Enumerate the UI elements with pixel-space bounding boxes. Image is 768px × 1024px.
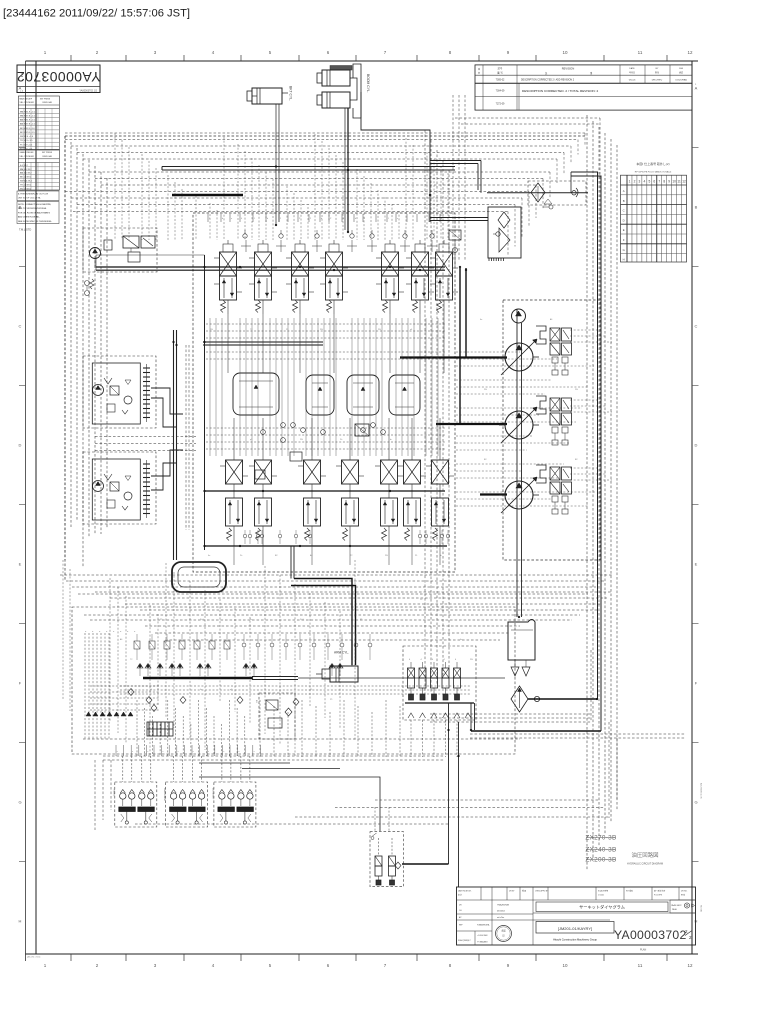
svg-text:FOR OIL FLOW OF EACH PARTS: FOR OIL FLOW OF EACH PARTS bbox=[18, 211, 51, 214]
pump line 2 bbox=[436, 423, 507, 425]
svg-text:7: 7 bbox=[384, 963, 387, 968]
svg-text:YA00003702: YA00003702 bbox=[614, 928, 687, 942]
svg-text:AND LINES IN DETAIL,: AND LINES IN DETAIL, bbox=[18, 216, 40, 219]
main bus pair bbox=[96, 266, 445, 268]
svg-text:MAIN RELIEF: MAIN RELIEF bbox=[20, 98, 33, 101]
svg-text:T2: T2 bbox=[350, 555, 353, 557]
svg-text:d: d bbox=[98, 631, 100, 632]
spool valve V13 bbox=[398, 444, 426, 546]
svg-text:承認: 承認 bbox=[679, 71, 683, 75]
svg-text:BM H 31.9 +1.0: BM H 31.9 +1.0 bbox=[20, 111, 36, 113]
svg-text:D: D bbox=[19, 443, 22, 448]
pilot valve (right) bbox=[211, 756, 256, 827]
lower dashed bundle A bbox=[95, 592, 612, 610]
comb feeders to pilot clusters bbox=[137, 700, 245, 756]
spool valve V11 bbox=[336, 444, 364, 546]
svg-text:F: F bbox=[695, 681, 698, 686]
solenoid valve SV5 bbox=[454, 659, 461, 700]
svg-text:SET PRESS: SET PRESS bbox=[42, 152, 53, 154]
svg-text:PL: PL bbox=[286, 329, 289, 331]
svg-text:1: 1 bbox=[656, 209, 658, 213]
pilot filter cluster bbox=[83, 228, 157, 272]
drain drop lines bbox=[448, 703, 450, 864]
svg-text:印: 印 bbox=[502, 934, 504, 938]
svg-text:E: E bbox=[19, 562, 22, 567]
tank inner bbox=[511, 629, 533, 631]
svg-text:番 号: 番 号 bbox=[497, 71, 503, 75]
svg-text:11: 11 bbox=[638, 50, 643, 55]
travel device L bbox=[83, 356, 156, 428]
mid dashed verticals bbox=[425, 95, 465, 700]
svg-text:F: F bbox=[19, 681, 22, 686]
svg-text:本図I 仕上番号 取外し(2): 本図I 仕上番号 取外し(2) bbox=[636, 161, 669, 166]
suction strainers bbox=[511, 660, 530, 676]
svg-text:PLAN: PLAN bbox=[640, 949, 647, 952]
svg-text:G: G bbox=[18, 800, 21, 805]
svg-text:3: 3 bbox=[154, 50, 157, 55]
spool valve V12 bbox=[375, 444, 403, 546]
svg-text:PH: PH bbox=[300, 439, 303, 441]
svg-text:B2: B2 bbox=[484, 459, 487, 461]
valve block left boundary bbox=[204, 255, 206, 550]
svg-text:CH: CH bbox=[459, 910, 462, 912]
relief cluster right of block bbox=[449, 230, 461, 266]
svg-text:12: 12 bbox=[687, 50, 693, 55]
svg-text:9: 9 bbox=[507, 963, 510, 968]
shuttle row bbox=[137, 664, 343, 677]
svg-text:EG: EG bbox=[255, 700, 257, 703]
pump drive shaft bbox=[516, 309, 518, 617]
spool valve V6 bbox=[406, 240, 434, 314]
svg-text:記: 記 bbox=[545, 71, 548, 75]
svg-text:SWING/ARM: SWING/ARM bbox=[163, 788, 166, 801]
svg-text:A: A bbox=[695, 86, 698, 91]
check valves row bbox=[243, 230, 434, 238]
travel feed verticals bbox=[173, 330, 175, 560]
svg-text:G: G bbox=[623, 248, 625, 252]
svg-text:SW 32.4 +1.0: SW 32.4 +1.0 bbox=[20, 136, 34, 138]
pilot bundle left verticals bbox=[65, 136, 107, 567]
pilot collector thick line bbox=[143, 677, 252, 679]
return line bbox=[528, 698, 598, 700]
drawing frame bbox=[36, 61, 692, 954]
svg-text:PL: PL bbox=[430, 439, 433, 441]
pump line 1 bbox=[400, 356, 507, 358]
svg-text:a4: a4 bbox=[150, 689, 153, 691]
svg-text:d: d bbox=[84, 631, 86, 632]
svg-text:Pz: Pz bbox=[420, 599, 422, 601]
svg-text:1: 1 bbox=[44, 963, 47, 968]
svg-text:4: 4 bbox=[444, 659, 446, 661]
svg-text:4a: 4a bbox=[480, 319, 483, 321]
lower dashed bundle B bbox=[145, 626, 520, 640]
bus line low bbox=[205, 545, 447, 547]
svg-text:[23444162 2011/09/22/ 15:57:06: [23444162 2011/09/22/ 15:57:06 JST] bbox=[3, 8, 190, 20]
svg-text:RPI DP/DPB PLUG TABLE (TOTAL2): RPI DP/DPB PLUG TABLE (TOTAL2) bbox=[635, 171, 672, 174]
bottom ruler bbox=[26, 954, 699, 968]
solenoid block (attachment) bbox=[370, 832, 404, 887]
pump line 3 bbox=[480, 493, 507, 495]
svg-text:a4: a4 bbox=[410, 329, 413, 331]
svg-text:7: 7 bbox=[384, 50, 387, 55]
svg-text:4: 4 bbox=[455, 659, 457, 661]
regulator pilot dashes bbox=[570, 330, 612, 480]
svg-text:SW 4.0 29.4: SW 4.0 29.4 bbox=[20, 181, 33, 183]
svg-text:AM H 31.9 +1.0: AM H 31.9 +1.0 bbox=[20, 119, 36, 122]
svg-text:P: P bbox=[330, 218, 332, 220]
svg-text:a: a bbox=[162, 751, 163, 753]
riser pair bbox=[459, 268, 461, 424]
svg-text:4: 4 bbox=[212, 50, 215, 55]
svg-text:BKT CYL.: BKT CYL. bbox=[289, 86, 293, 101]
svg-text:F: F bbox=[623, 238, 625, 242]
svg-text:5: 5 bbox=[648, 180, 650, 184]
svg-text:T.M.L.STD: T.M.L.STD bbox=[19, 228, 31, 232]
svg-text:4: 4 bbox=[409, 659, 411, 661]
svg-text:[JM201-01/KAYRY]: [JM201-01/KAYRY] bbox=[558, 926, 592, 931]
svg-text:PH: PH bbox=[470, 659, 473, 661]
svg-text:8: 8 bbox=[663, 180, 665, 184]
bus line mid bbox=[205, 490, 445, 492]
notes block 2 bbox=[17, 202, 59, 224]
svg-text:UNIT X10 OF L/min AT EA: UNIT X10 OF L/min AT EA bbox=[18, 197, 41, 200]
valve block dashed box bbox=[193, 213, 455, 572]
filter dashed lines bbox=[430, 650, 591, 722]
accumulator block bbox=[172, 562, 226, 592]
main passage block B2 bbox=[306, 375, 334, 415]
spool valve V7 bbox=[430, 240, 458, 314]
spool valve V5 bbox=[376, 240, 404, 314]
svg-text:HYDRAULIC CIRCUIT DIAGRAM: HYDRAULIC CIRCUIT DIAGRAM bbox=[627, 863, 663, 866]
svg-text:B: B bbox=[623, 199, 625, 203]
ride control dashed box bbox=[255, 693, 295, 739]
svg-text:1: 1 bbox=[44, 50, 47, 55]
svg-text:A1: A1 bbox=[550, 318, 553, 321]
svg-text:事: 事 bbox=[590, 71, 593, 75]
svg-text:サーキットダイヤグラム: サーキットダイヤグラム bbox=[579, 904, 625, 911]
svg-text:BY: BY bbox=[656, 68, 659, 70]
svg-text:SMALL RELIEF: SMALL RELIEF bbox=[20, 151, 35, 154]
svg-text:ZX240-3B: ZX240-3B bbox=[585, 847, 616, 854]
svg-text:a: a bbox=[254, 751, 255, 753]
main passage block B4 bbox=[389, 375, 420, 415]
svg-text:NOTE: CONNECTING HOSE/PIPE,: NOTE: CONNECTING HOSE/PIPE, bbox=[18, 204, 52, 206]
parts table 1 bbox=[18, 96, 59, 150]
svg-text:9: 9 bbox=[668, 180, 670, 184]
svg-text:VBL CYLINDER: VBL CYLINDER bbox=[20, 156, 35, 158]
svg-text:C: C bbox=[695, 324, 698, 329]
svg-text:C: C bbox=[19, 324, 22, 329]
svg-text:Hitachi Construction Machinery: Hitachi Construction Machinery Group bbox=[553, 938, 597, 942]
svg-text:PH: PH bbox=[385, 555, 388, 557]
svg-text:PH: PH bbox=[575, 389, 578, 391]
svg-text:REF: REF bbox=[459, 925, 463, 927]
svg-text:TR 4.0 39.2: TR 4.0 39.2 bbox=[20, 185, 32, 187]
solenoid valve SV1 bbox=[408, 659, 415, 700]
svg-text:3: 3 bbox=[154, 963, 157, 968]
top bundle drop verticals bbox=[115, 133, 448, 240]
travel feed jogs bbox=[151, 388, 183, 414]
valve block inner verticals bbox=[210, 318, 438, 456]
svg-text:A: PRESSURE(MPa) AT OIL FLOW: A: PRESSURE(MPa) AT OIL FLOW bbox=[18, 192, 48, 195]
pilot gear pump bbox=[512, 309, 526, 323]
svg-text:P1: P1 bbox=[360, 619, 363, 621]
svg-text:D: D bbox=[623, 218, 625, 222]
svg-text:P1: P1 bbox=[330, 699, 333, 701]
svg-text:4: 4 bbox=[421, 659, 423, 661]
svg-text:T?.NAKANO: T?.NAKANO bbox=[477, 941, 488, 944]
svg-text:担当: 担当 bbox=[655, 71, 659, 75]
svg-text:VBL CYLINDER: VBL CYLINDER bbox=[20, 102, 35, 104]
svg-text:H.KANEKURA: H.KANEKURA bbox=[477, 924, 490, 927]
spool valve V14 bbox=[426, 444, 454, 546]
pilot line bundle top bbox=[65, 133, 585, 257]
svg-text:SEE FLOW SPEC OF THIS MODEL.: SEE FLOW SPEC OF THIS MODEL. bbox=[18, 221, 53, 223]
svg-text:a: a bbox=[178, 751, 179, 753]
mid small symbols bbox=[255, 423, 385, 479]
svg-text:YA00003702: YA00003702 bbox=[17, 69, 101, 85]
svg-text:BK R 37.8 +1.5: BK R 37.8 +1.5 bbox=[20, 132, 35, 134]
svg-text:PH: PH bbox=[378, 329, 381, 331]
svg-text:BK 4.0 39.2: BK 4.0 39.2 bbox=[20, 177, 32, 179]
svg-text:1: 1 bbox=[656, 219, 658, 223]
svg-text:4.0 39.2: 4.0 39.2 bbox=[20, 165, 29, 167]
svg-text:2: 2 bbox=[96, 50, 99, 55]
svg-text:a: a bbox=[231, 218, 233, 220]
svg-text:G: G bbox=[694, 800, 697, 805]
sheet left edge bbox=[25, 61, 27, 961]
boom cyl pipes bbox=[350, 78, 357, 100]
svg-text:2: 2 bbox=[364, 218, 366, 220]
bottom cluster labels comb bbox=[116, 745, 260, 756]
svg-text:ed n/5m: ed n/5m bbox=[497, 917, 505, 919]
svg-text:用 紙: 用 紙 bbox=[681, 893, 685, 897]
top ruler bbox=[26, 50, 699, 61]
long dashed returns bbox=[470, 722, 686, 818]
drains to bus bbox=[234, 546, 440, 565]
svg-text:PS 3.9 39.2: PS 3.9 39.2 bbox=[20, 189, 32, 191]
svg-text:d: d bbox=[91, 631, 93, 632]
svg-text:YA00003702 1/2: YA00003702 1/2 bbox=[79, 90, 97, 93]
title block bbox=[457, 887, 696, 952]
svg-text:9: 9 bbox=[507, 50, 510, 55]
pilot manifold region small valves bbox=[134, 634, 372, 660]
solenoid valve SV4 bbox=[442, 659, 449, 700]
regulator R3 bbox=[536, 465, 572, 514]
svg-text:OVERLOAD: OVERLOAD bbox=[42, 101, 53, 104]
svg-text:PH: PH bbox=[484, 389, 487, 391]
pilot valve (left) bbox=[163, 756, 208, 827]
svg-text:a: a bbox=[117, 751, 118, 753]
svg-text:2: 2 bbox=[96, 963, 99, 968]
svg-text:10: 10 bbox=[562, 50, 568, 55]
svg-text:H: H bbox=[623, 258, 625, 262]
svg-text:2: 2 bbox=[20, 71, 23, 77]
svg-text:d: d bbox=[126, 631, 128, 632]
svg-text:PH: PH bbox=[210, 329, 213, 331]
svg-text:2: 2 bbox=[280, 218, 282, 220]
solenoid bank block bbox=[147, 722, 173, 736]
svg-text:Pz: Pz bbox=[340, 439, 342, 441]
svg-text:WT 規格: WT 規格 bbox=[626, 889, 633, 893]
svg-text:5: 5 bbox=[269, 50, 272, 55]
svg-text:a: a bbox=[397, 218, 399, 220]
svg-text:BM R 37.8 +1.5: BM R 37.8 +1.5 bbox=[20, 115, 36, 117]
svg-text:DATE: DATE bbox=[629, 67, 635, 70]
boom cylinder 2 bbox=[317, 74, 370, 108]
manifold drain sawtooth bbox=[408, 713, 471, 718]
svg-text:7N/A2N2N3N: 7N/A2N2N3N bbox=[497, 904, 510, 907]
pump unit dashed box bbox=[503, 300, 600, 560]
spool valve V9 bbox=[249, 444, 277, 546]
svg-text:p2: p2 bbox=[250, 439, 253, 441]
bottom-left vert dashes bbox=[95, 760, 111, 830]
svg-text:dr: dr bbox=[390, 439, 392, 441]
svg-text:1: 1 bbox=[629, 180, 631, 184]
svg-text:10: 10 bbox=[562, 963, 568, 968]
manifold bus bbox=[405, 702, 474, 704]
regulator R1 bbox=[536, 326, 572, 375]
small relief pair below bbox=[85, 279, 95, 296]
small diamonds bbox=[128, 689, 299, 712]
parts table 2 bbox=[18, 150, 59, 191]
svg-text:T2: T2 bbox=[250, 329, 253, 331]
pilot filter group (upper right) bbox=[487, 181, 588, 209]
svg-text:4: 4 bbox=[643, 180, 645, 184]
svg-text:A1: A1 bbox=[120, 638, 123, 641]
svg-text:7004-09: 7004-09 bbox=[496, 90, 505, 93]
notes block 1 bbox=[17, 191, 59, 201]
svg-text:AM R 37.8 +1.5: AM R 37.8 +1.5 bbox=[20, 123, 36, 126]
svg-text:7005-02: 7005-02 bbox=[496, 79, 505, 82]
arm feed double elbow bbox=[294, 579, 352, 666]
right zone letters bbox=[692, 86, 699, 924]
regulator R2 bbox=[536, 396, 572, 445]
svg-text:D: D bbox=[695, 443, 698, 448]
right-mid dashed horizontals bbox=[456, 352, 595, 506]
svg-text:A: A bbox=[623, 189, 625, 193]
spool valve V3 bbox=[286, 240, 314, 314]
svg-text:ZX270-3B: ZX270-3B bbox=[585, 835, 616, 842]
svg-text:改: 改 bbox=[478, 67, 480, 71]
svg-text:SET PRESS: SET PRESS bbox=[40, 99, 51, 101]
left pilot comb bbox=[83, 631, 520, 739]
svg-text:E: E bbox=[695, 562, 698, 567]
thick bar bbox=[172, 194, 243, 196]
valve block ports bbox=[208, 214, 443, 222]
svg-text:+1.69/0.5MN: +1.69/0.5MN bbox=[477, 935, 488, 937]
svg-text:5: 5 bbox=[269, 963, 272, 968]
svg-text:b: b bbox=[355, 218, 357, 220]
bottom feed line bbox=[402, 863, 449, 865]
svg-text:11: 11 bbox=[677, 180, 681, 184]
main pump P1 bbox=[499, 339, 539, 375]
solenoid valve SV2 bbox=[419, 659, 426, 700]
svg-text:符: 符 bbox=[478, 71, 480, 75]
svg-text:A9-2922B 11.05: A9-2922B 11.05 bbox=[700, 783, 703, 799]
svg-text:PH: PH bbox=[320, 329, 323, 331]
svg-text:(A3-594 x 841): (A3-594 x 841) bbox=[27, 956, 41, 959]
svg-text:A1: A1 bbox=[310, 554, 313, 557]
svg-text:ARM CYL.: ARM CYL. bbox=[334, 651, 349, 655]
svg-text:3: 3 bbox=[639, 180, 641, 184]
valve block crossing dashed bbox=[206, 324, 446, 449]
svg-text:PL: PL bbox=[415, 555, 418, 557]
svg-text:1:/1201: 1:/1201 bbox=[598, 895, 604, 897]
svg-text:TR 34.3 +1.5: TR 34.3 +1.5 bbox=[20, 140, 33, 142]
svg-text:10: 10 bbox=[672, 180, 676, 184]
svg-text:AP: AP bbox=[459, 916, 462, 919]
svg-text:8: 8 bbox=[449, 963, 452, 968]
svg-text:6: 6 bbox=[653, 180, 655, 184]
svg-text:PAGE: PAGE bbox=[672, 908, 678, 911]
svg-text:d: d bbox=[119, 631, 121, 632]
svg-text:2: 2 bbox=[685, 929, 688, 934]
svg-text:4a: 4a bbox=[208, 555, 211, 557]
svg-text:a: a bbox=[193, 751, 194, 753]
arm cylinder bbox=[316, 651, 358, 683]
arm cyl feed bbox=[351, 660, 353, 666]
title stamp box (rotated) bbox=[17, 65, 101, 93]
top row inter-valve stubs bbox=[241, 240, 437, 252]
spool valve V2 bbox=[249, 240, 277, 314]
pilot area inner verticals bbox=[260, 700, 400, 757]
bucket cyl lines bbox=[275, 104, 277, 225]
model names bbox=[585, 835, 616, 864]
svg-text:DATE RLSE DR.: DATE RLSE DR. bbox=[458, 890, 472, 893]
travel device R bbox=[83, 452, 156, 524]
svg-text:DESCRIPTION CORRECTED. 2 / TOT: DESCRIPTION CORRECTED. 2 / TOTAL REVISIO… bbox=[522, 89, 598, 93]
svg-text:BK H 31.9 +1.0: BK H 31.9 +1.0 bbox=[20, 128, 35, 130]
dashed verticals near travel lines bbox=[186, 345, 189, 530]
svg-text:4: 4 bbox=[241, 218, 243, 220]
solenoid valve SV3 bbox=[431, 659, 438, 700]
svg-text:d: d bbox=[112, 631, 114, 632]
svg-text:7272-09: 7272-09 bbox=[496, 103, 505, 106]
svg-text:BM 4.0 39.2: BM 4.0 39.2 bbox=[20, 169, 32, 171]
svg-text:承認: 承認 bbox=[501, 929, 506, 933]
svg-text:b: b bbox=[267, 218, 269, 220]
spool valve V10 bbox=[298, 444, 326, 546]
svg-text:a: a bbox=[132, 751, 133, 753]
svg-text:06/10/04: 06/10/04 bbox=[497, 911, 506, 913]
main pump P2 bbox=[499, 407, 539, 443]
svg-text:B: B bbox=[695, 205, 698, 210]
svg-text:DR: DR bbox=[459, 905, 462, 907]
main passage block B1 bbox=[233, 373, 279, 415]
main line pair upper bbox=[162, 166, 455, 168]
svg-text:DR.CHITU: DR.CHITU bbox=[652, 80, 663, 82]
svg-text:設 計: 設 計 bbox=[458, 893, 462, 897]
svg-text:6: 6 bbox=[327, 50, 330, 55]
svg-text:a: a bbox=[238, 751, 239, 753]
svg-text:1: 1 bbox=[254, 218, 256, 220]
svg-text:U.KUCHIBA: U.KUCHIBA bbox=[675, 79, 687, 82]
svg-text:AM 4.0 39.2: AM 4.0 39.2 bbox=[20, 172, 32, 175]
svg-text:検 図: 検 図 bbox=[522, 889, 526, 893]
svg-text:1: 1 bbox=[388, 218, 390, 220]
svg-text:dr: dr bbox=[440, 555, 442, 557]
hydraulic tank bbox=[508, 620, 535, 661]
svg-text:REF. TO XXXXXXXXXXXXXA.: REF. TO XXXXXXXXXXXXXA. bbox=[18, 207, 47, 210]
svg-text:C: C bbox=[623, 209, 625, 213]
svg-text:YA4M 4E22: YA4M 4E22 bbox=[671, 904, 682, 907]
svg-text:P: P bbox=[299, 218, 301, 220]
svg-text:a: a bbox=[147, 751, 148, 753]
plug table bbox=[621, 175, 687, 262]
solid feeds to filter group bbox=[430, 161, 601, 732]
lower-left dashed mesh bbox=[60, 560, 612, 756]
